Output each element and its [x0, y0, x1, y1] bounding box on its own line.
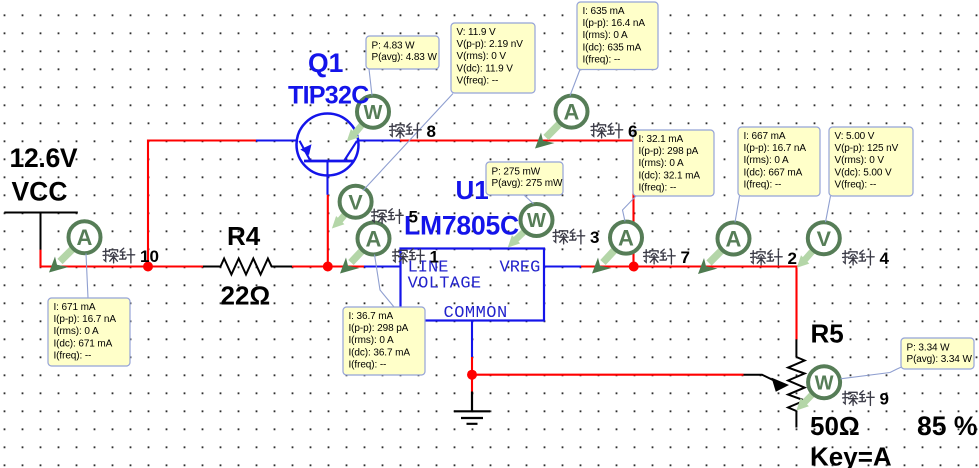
- svg-text:I(rms): 0 A: I(rms): 0 A: [639, 158, 684, 169]
- svg-text:I(rms): 0 A: I(rms): 0 A: [744, 155, 789, 166]
- svg-text:I: 635 mA: I: 635 mA: [583, 6, 625, 17]
- svg-text:Key=A: Key=A: [810, 441, 892, 468]
- svg-text:V: V: [817, 227, 832, 251]
- svg-text:I(freq): --: I(freq): --: [583, 55, 621, 66]
- svg-text:I(p-p): 16.4 nA: I(p-p): 16.4 nA: [583, 18, 646, 29]
- svg-text:VREG: VREG: [500, 259, 541, 278]
- svg-text:I(freq): --: I(freq): --: [639, 183, 677, 194]
- svg-text:R5: R5: [811, 319, 844, 349]
- svg-text:V(p-p): 2.19 nV: V(p-p): 2.19 nV: [457, 39, 524, 50]
- svg-text:TIP32C: TIP32C: [288, 82, 369, 110]
- svg-text:R4: R4: [227, 221, 261, 251]
- svg-text:P(avg): 3.34 W: P(avg): 3.34 W: [907, 354, 973, 365]
- svg-text:6: 6: [628, 122, 637, 141]
- svg-text:I: 36.7 mA: I: 36.7 mA: [349, 311, 394, 322]
- svg-text:V(freq): --: V(freq): --: [835, 180, 877, 191]
- svg-text:V(p-p): 125 nV: V(p-p): 125 nV: [835, 143, 899, 154]
- svg-text:85 %: 85 %: [917, 411, 977, 441]
- svg-text:I: 667 mA: I: 667 mA: [744, 131, 786, 142]
- svg-text:A: A: [564, 100, 580, 125]
- svg-text:I(p-p): 298 pA: I(p-p): 298 pA: [639, 146, 699, 157]
- svg-text:V: V: [348, 190, 363, 214]
- svg-text:2: 2: [788, 249, 797, 268]
- svg-text:I: 32.1 mA: I: 32.1 mA: [639, 134, 684, 145]
- svg-text:9: 9: [880, 390, 889, 409]
- svg-text:4: 4: [880, 249, 890, 268]
- svg-text:I(dc): 667 mA: I(dc): 667 mA: [744, 167, 803, 178]
- svg-text:7: 7: [681, 248, 690, 267]
- svg-text:5: 5: [409, 208, 418, 227]
- svg-text:P: 275 mW: P: 275 mW: [492, 166, 541, 177]
- svg-text:V(freq): --: V(freq): --: [457, 76, 499, 87]
- svg-text:P(avg): 4.83 W: P(avg): 4.83 W: [372, 52, 438, 63]
- svg-text:V(dc): 5.00 V: V(dc): 5.00 V: [835, 167, 892, 178]
- svg-text:P: 3.34 W: P: 3.34 W: [907, 342, 951, 353]
- svg-text:I(rms): 0 A: I(rms): 0 A: [583, 30, 628, 41]
- svg-text:A: A: [77, 225, 93, 250]
- svg-text:Q1: Q1: [308, 48, 343, 78]
- svg-text:P(avg): 275 mW: P(avg): 275 mW: [492, 178, 564, 189]
- svg-text:10: 10: [140, 247, 159, 266]
- svg-text:I(freq): --: I(freq): --: [744, 180, 782, 191]
- svg-text:I(dc): 36.7 mA: I(dc): 36.7 mA: [349, 347, 411, 358]
- svg-text:LM7805C: LM7805C: [404, 211, 519, 241]
- svg-text:I(p-p): 16.7 nA: I(p-p): 16.7 nA: [54, 314, 117, 325]
- svg-text:3: 3: [590, 228, 599, 247]
- svg-text:COMMON: COMMON: [444, 304, 508, 323]
- svg-text:I(p-p): 298 pA: I(p-p): 298 pA: [349, 323, 409, 334]
- svg-text:I(dc): 671 mA: I(dc): 671 mA: [54, 338, 113, 349]
- svg-text:V: 11.9 V: V: 11.9 V: [457, 27, 497, 38]
- svg-text:V(rms): 0 V: V(rms): 0 V: [457, 51, 507, 62]
- svg-text:I(rms): 0 A: I(rms): 0 A: [349, 335, 394, 346]
- svg-text:V(dc): 11.9 V: V(dc): 11.9 V: [457, 63, 514, 74]
- svg-text:12.6V: 12.6V: [10, 143, 78, 173]
- svg-text:VCC: VCC: [12, 177, 68, 207]
- svg-text:I(rms): 0 A: I(rms): 0 A: [54, 326, 99, 337]
- svg-text:I(freq): --: I(freq): --: [54, 351, 92, 362]
- svg-text:W: W: [815, 372, 834, 394]
- svg-text:8: 8: [427, 122, 436, 141]
- svg-text:I(dc): 635 mA: I(dc): 635 mA: [583, 42, 642, 53]
- svg-text:U1: U1: [456, 175, 489, 205]
- svg-text:I: 671 mA: I: 671 mA: [54, 302, 96, 313]
- svg-text:V(rms): 0 V: V(rms): 0 V: [835, 155, 885, 166]
- svg-text:I(dc): 32.1 mA: I(dc): 32.1 mA: [639, 170, 701, 181]
- svg-text:22Ω: 22Ω: [221, 281, 271, 311]
- svg-text:V: 5.00 V: V: 5.00 V: [835, 131, 875, 142]
- svg-text:A: A: [618, 226, 634, 251]
- svg-text:VOLTAGE: VOLTAGE: [408, 274, 482, 293]
- svg-text:I(freq): --: I(freq): --: [349, 360, 387, 371]
- svg-text:50Ω: 50Ω: [810, 411, 860, 441]
- svg-text:I(p-p): 16.7 nA: I(p-p): 16.7 nA: [744, 143, 807, 154]
- svg-text:W: W: [527, 210, 546, 232]
- svg-text:1: 1: [430, 248, 439, 267]
- svg-text:A: A: [726, 226, 742, 251]
- svg-text:P: 4.83 W: P: 4.83 W: [372, 40, 416, 51]
- svg-text:A: A: [366, 226, 382, 251]
